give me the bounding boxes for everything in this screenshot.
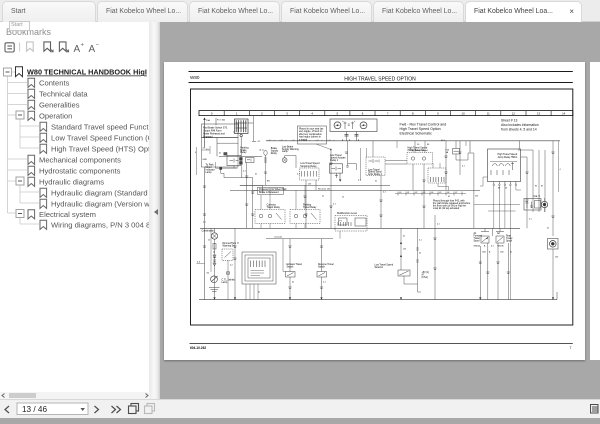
left long wire [204,167,206,300]
svg-text:F1 7.5A: F1 7.5A [217,119,225,122]
svg-text:4.1: 4.1 [243,171,246,173]
note: powered only when park brake released [258,187,284,194]
relay row rail [219,155,262,157]
svg-text:86: 86 [427,144,430,146]
left chain components [214,228,216,233]
panel horizontal scrollbar [0,392,150,399]
note: fuse F42 [433,200,471,210]
svg-text:GND44: GND44 [474,246,482,248]
tree connector lines [8,72,40,224]
relay K1 (hatched) [235,119,249,134]
svg-text:4: 4 [349,140,351,142]
svg-text:41: 41 [219,153,221,155]
svg-text:Lamp: Lamp [282,150,289,153]
svg-text:41: 41 [448,196,450,198]
svg-text:604-10.262: 604-10.262 [190,346,206,350]
svg-text:15A: 15A [206,119,210,122]
svg-text:Brake is Released: Brake is Released [259,191,279,194]
svg-text:41: 41 [255,174,257,176]
note: sheet number [501,119,539,132]
svg-text:47: 47 [455,192,457,194]
svg-text:Dimmer/Horn: Dimmer/Horn [223,242,237,245]
header rule bottom [189,82,573,84]
mid cross rail [266,238,333,240]
connector block X3 [428,168,446,183]
status bar [0,399,600,418]
svg-text:Cat. 5: Cat. 5 [534,195,541,198]
misc mid verticals [330,150,332,228]
To Park Motor text [206,164,215,174]
svg-text:4.1: 4.1 [269,140,272,142]
svg-text:Lamp: Lamp [222,282,228,284]
svg-text:12: 12 [512,112,516,116]
svg-text:Switch: Switch [318,265,326,268]
svg-text:Rear: Rear [506,234,511,237]
svg-text:Travel: Travel [506,237,513,240]
svg-text:30: 30 [505,188,507,190]
low travel spool activate relay 2 [366,157,385,176]
svg-text:Spool: Spool [474,241,480,243]
relay K2 box [227,156,241,166]
second chain [234,228,236,299]
svg-text:4.1: 4.1 [333,204,336,206]
svg-text:Stopping Relay: Stopping Relay [300,165,317,168]
svg-text:Low Travel Speed Function (C: Low Travel Speed Function (C [51,133,150,142]
svg-text:4.1: 4.1 [358,180,361,182]
grid reference row [199,111,573,116]
svg-text:G44: G44 [482,252,486,254]
svg-text:41: 41 [375,181,377,183]
svg-text:41: 41 [237,243,239,245]
note arrow [316,144,331,150]
svg-text:40: 40 [399,192,401,194]
note box: Fwd Brake Switch [202,124,239,138]
svg-text:7: 7 [387,112,389,116]
svg-text:Combination: Combination [202,229,216,232]
svg-text:A: A [489,251,491,254]
svg-text:42: 42 [415,192,417,194]
svg-text:−: − [96,43,100,49]
ground bus [199,299,557,301]
top-right rail [266,140,560,142]
svg-text:41: 41 [322,196,324,198]
note: schematic title block [400,123,447,136]
svg-text:4: 4 [358,140,360,142]
nested connector rects [242,252,276,284]
svg-text:4.1: 4.1 [529,219,532,221]
svg-text:S2: S2 [207,272,210,274]
connector blob [224,153,227,156]
svg-text:11: 11 [487,112,490,116]
bookmarks panel [0,22,150,392]
svg-text:Hydraulic diagrams: Hydraulic diagrams [39,177,104,186]
relay K3 box [246,158,255,163]
high travel speed relay kit [408,147,428,153]
pin stubs [493,182,495,185]
tab bar [0,0,600,22]
svg-text:41: 41 [403,236,405,238]
below-row wiring [220,167,222,169]
svg-text:Electrical Schematic: Electrical Schematic [400,132,433,136]
svg-text:86: 86 [498,188,500,190]
svg-text:Technical data: Technical data [39,89,88,98]
svg-text:Standard Travel speed Functic: Standard Travel speed Functic [51,122,150,131]
svg-text:Electrical system: Electrical system [39,210,96,219]
svg-text:Generalities: Generalities [39,100,80,109]
svg-text:41: 41 [292,282,294,284]
svg-text:+: + [81,43,85,49]
nested block drops [245,284,247,300]
svg-text:P1: P1 [340,221,343,223]
svg-text:4.5: 4.5 [206,149,209,151]
svg-text:+: + [354,120,356,123]
svg-text:a team): a team) [299,139,307,142]
svg-text:5: 5 [337,112,339,116]
svg-text:Warning Sw: Warning Sw [223,244,236,247]
svg-text:41: 41 [419,253,421,255]
svg-text:Exhaust Travel: Exhaust Travel [287,263,303,266]
low travel speed actuate relay 1 [330,154,346,162]
svg-text:41: 41 [407,192,409,194]
schematic border box [191,89,573,325]
warning lamp [282,158,287,163]
jump relay internals [492,164,497,166]
svg-text:0: 0 [211,112,213,116]
svg-text:4.1: 4.1 [437,224,440,226]
svg-text:High Travel Speed (HTS) Opti: High Travel Speed (HTS) Opti [51,144,150,153]
svg-text:High Travel Speed Option: High Travel Speed Option [400,127,441,131]
svg-text:15: 15 [208,240,210,242]
oval connector [264,150,267,155]
svg-text:Reverse Travel: Reverse Travel [318,263,334,266]
svg-text:Lamp: Lamp [206,171,213,174]
svg-text:6: 6 [362,112,364,116]
right bus verticals [521,156,527,158]
svg-text:10: 10 [462,112,466,116]
svg-text:Fwd - Rev Travel Control and: Fwd - Rev Travel Control and [400,123,447,127]
svg-text:C.T.L. (white): C.T.L. (white) [222,278,236,281]
svg-text:Activ Relay 2: Activ Relay 2 [368,173,383,176]
svg-text:4.1: 4.1 [293,140,296,142]
svg-text:14: 14 [562,112,566,116]
svg-text:8: 8 [412,112,414,116]
bookmark icons [16,67,47,230]
relay row labels [240,145,299,155]
svg-text:41: 41 [213,252,215,254]
svg-text:Switch: Switch [287,265,295,268]
svg-text:from sheets 4, 5 and 14: from sheets 4, 5 and 14 [501,128,537,132]
svg-text:4.1: 4.1 [491,246,495,248]
wiring frame below note [202,138,239,168]
svg-text:High Travel Speed: High Travel Speed [410,149,429,152]
svg-text:2: 2 [261,112,263,116]
svg-text:4.1: 4.1 [419,240,422,242]
mid rail elbows [240,184,390,186]
svg-text:43: 43 [423,192,425,194]
svg-text:13: 13 [537,112,541,116]
svg-text:Relay 1: Relay 1 [330,159,339,162]
svg-text:45: 45 [439,192,441,194]
svg-text:Hydrostatic components: Hydrostatic components [39,166,121,175]
svg-text:153: 153 [403,249,406,251]
svg-text:Travel Relay: Travel Relay [267,206,281,209]
svg-text:153: 153 [475,196,478,198]
svg-text:4.1: 4.1 [258,141,262,143]
svg-text:Hydraulic diagram (Version wit: Hydraulic diagram (Version wit [51,199,150,208]
svg-text:Travel Relay: Travel Relay [303,206,317,209]
svg-text:4: 4 [560,169,561,171]
svg-text:Hydraulic diagram (Standard v: Hydraulic diagram (Standard v [51,188,150,197]
tick bars on wires [203,152,555,289]
wires below cluster [346,132,348,141]
HTS jump relay box [488,149,521,182]
svg-text:4.1: 4.1 [317,140,320,142]
jump relay drops [493,186,495,229]
tree text [27,68,154,230]
splitter [149,22,160,399]
svg-text:4.1: 4.1 [323,282,326,284]
battery feed arrows top-left [204,118,206,148]
svg-text:snap kit (12 as) actuated: snap kit (12 as) actuated [433,207,460,210]
svg-text:87: 87 [541,186,543,188]
svg-text:Also includes information: Also includes information [501,123,539,127]
cluster internals [344,122,346,130]
svg-text:41: 41 [510,252,512,254]
svg-text:+: + [342,120,344,123]
svg-text:G45: G45 [500,252,504,254]
svg-text:Resume 151: Resume 151 [318,188,331,190]
document area [160,22,600,399]
svg-text:4.1: 4.1 [383,192,386,194]
svg-text:BR: BR [267,181,270,183]
wire number tick row [397,192,399,196]
long mid rail [200,227,520,229]
instrument cluster box [330,119,377,132]
expand boxes [4,68,25,218]
svg-text:Contents: Contents [39,78,70,87]
svg-text:15: 15 [342,197,344,199]
svg-text:7: 7 [570,346,572,350]
svg-text:Jump Relay HS8.1: Jump Relay HS8.1 [498,156,519,159]
svg-text:W80: W80 [190,75,200,80]
svg-text:Console: Console [274,237,283,239]
svg-text:44: 44 [431,192,433,194]
svg-text:Sheet # 13: Sheet # 13 [501,119,518,123]
svg-text:1: 1 [236,112,238,116]
svg-text:4.1: 4.1 [329,140,332,142]
svg-text:41: 41 [258,292,260,294]
note box: toggle instructions [298,126,327,144]
footer rule [190,343,573,345]
right round connector [548,239,559,250]
gauge G1 [334,122,341,129]
svg-text:A1: A1 [474,232,478,235]
svg-text:HIGH TRAVEL SPEED OPTION: HIGH TRAVEL SPEED OPTION [344,76,416,82]
svg-text:Travel: Travel [474,237,481,240]
svg-text:A7: A7 [422,273,426,276]
combination lamp [211,233,217,239]
top-left wiring [216,138,218,157]
low travel stopping relay [300,162,320,168]
svg-text:A: A [89,44,96,55]
svg-text:Spool: Spool [506,241,512,243]
svg-text:(0.5A): (0.5A) [422,276,428,279]
svg-text:4: 4 [311,112,313,116]
gauge G2 [360,122,367,129]
header rule top [189,71,573,73]
svg-text:Relay: Relay [240,151,247,154]
svg-text:13 / 46: 13 / 46 [22,405,47,414]
svg-text:153: 153 [308,184,311,186]
svg-text:Multifunction Lever: Multifunction Lever [337,212,357,215]
svg-text:(4.1): (4.1) [260,150,264,152]
svg-text:Engaged: Engaged [203,136,213,139]
svg-text:Wiring diagrams, P/N 3 004 84: Wiring diagrams, P/N 3 004 84 [51,220,150,229]
solenoid feeds [479,246,481,300]
svg-text:3: 3 [286,112,288,116]
svg-text:153: 153 [555,257,558,259]
svg-text:46: 46 [447,192,449,194]
svg-text:4.1: 4.1 [281,140,284,142]
svg-text:4.1: 4.1 [462,166,465,168]
svg-text:9: 9 [437,112,439,116]
svg-text:W80 TECHNICAL HANDBOOK HigI: W80 TECHNICAL HANDBOOK HigI [27,68,147,77]
svg-text:GND: GND [203,159,208,161]
svg-text:4: 4 [195,152,197,154]
drop from block to solenoid rail [437,183,439,187]
svg-text:4.1: 4.1 [297,174,300,176]
svg-text:Selector: Selector [375,266,384,269]
svg-text:41: 41 [547,228,549,230]
svg-text:85: 85 [535,186,537,188]
svg-text:A: A [74,44,81,55]
svg-text:Operation: Operation [39,111,72,120]
svg-text:Mechanical components: Mechanical components [39,155,121,164]
wire relay K1 down [240,137,242,157]
ladder stubs to relay boxes [260,195,262,210]
svg-text:4.1: 4.1 [203,222,206,224]
svg-text:Low Travel Speed: Low Travel Speed [375,264,394,267]
svg-text:Relay: Relay [271,152,278,155]
wire number labels [203,149,558,293]
tick row on rail [267,139,269,142]
svg-text:A2: A2 [497,232,501,235]
svg-text:A: A [484,245,486,248]
svg-text:4.2: 4.2 [230,265,233,267]
svg-text:4: 4 [342,140,344,142]
